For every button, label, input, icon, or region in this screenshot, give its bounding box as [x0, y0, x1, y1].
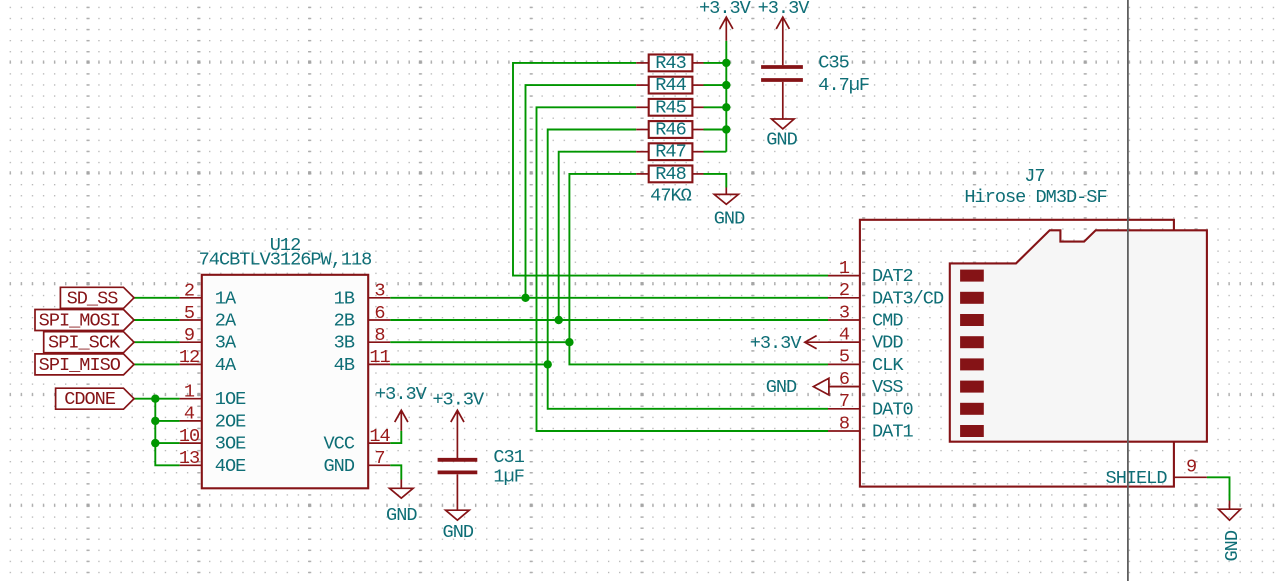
- ground below C35: [766, 119, 797, 150]
- svg-text:2A: 2A: [215, 311, 237, 332]
- wire R47 right to rail bottom: [704, 151, 727, 153]
- wire SD_SS to U12 1A: [134, 297, 180, 299]
- wire R46 right to rail: [704, 129, 727, 131]
- svg-text:R44: R44: [655, 75, 686, 96]
- svg-text:CMD: CMD: [872, 311, 903, 332]
- ground below C31: [443, 510, 474, 543]
- svg-text:10: 10: [179, 426, 200, 447]
- wire to U12 3OE: [155, 442, 179, 444]
- svg-text:GND: GND: [714, 208, 745, 229]
- ground at J7 SHIELD: [1219, 501, 1244, 562]
- svg-text:1µF: 1µF: [493, 466, 523, 487]
- junction DAT0 4B: [544, 360, 552, 368]
- svg-text:C31: C31: [493, 447, 524, 468]
- svg-text:4: 4: [184, 404, 195, 425]
- U12 pin 6 2B: [334, 303, 391, 332]
- net label SPI_MOSI: [35, 310, 134, 332]
- J7 pin 3 CMD: [828, 302, 903, 331]
- junction rail R46: [722, 125, 730, 133]
- junction rail R43: [722, 59, 730, 67]
- wire J7 SHIELD to GND: [1207, 477, 1230, 500]
- svg-text:VCC: VCC: [324, 434, 355, 455]
- svg-text:+3.3V: +3.3V: [750, 333, 803, 354]
- page frame line: [1127, 0, 1129, 581]
- J7 pin 8 DAT1: [828, 413, 913, 442]
- svg-text:6: 6: [374, 303, 384, 324]
- capacitor C35: [761, 52, 869, 119]
- junction CDONE 2OE: [151, 417, 159, 425]
- power +3.3V top left: [699, 0, 752, 41]
- U12 pin 11 4B: [334, 347, 391, 376]
- svg-text:2: 2: [839, 280, 849, 301]
- svg-text:2OE: 2OE: [215, 411, 246, 432]
- junction CLK 3B: [565, 338, 573, 346]
- svg-text:R43: R43: [655, 53, 685, 74]
- svg-text:C35: C35: [818, 52, 848, 73]
- wire R43 right to rail: [704, 62, 727, 64]
- J7 pin 9 SHIELD: [1106, 457, 1207, 489]
- wire net DAT0: R46 left down to J7 pin7: [548, 130, 828, 409]
- U12 pin 2 1A: [180, 281, 237, 310]
- junction CDONE 1OE: [151, 395, 159, 403]
- U12 pin 10 3OE: [179, 426, 246, 455]
- svg-text:VDD: VDD: [872, 333, 903, 354]
- resistor R48: [636, 164, 703, 185]
- svg-text:3A: 3A: [215, 333, 237, 354]
- svg-text:1: 1: [184, 382, 195, 403]
- power +3.3V at J7 VDD: [750, 333, 860, 354]
- IC U12 74CBTLV3126PW body: [199, 235, 372, 488]
- U12 pin 7 GND: [324, 448, 391, 477]
- svg-text:74CBTLV3126PW,118: 74CBTLV3126PW,118: [199, 249, 372, 270]
- svg-text:9: 9: [184, 325, 194, 346]
- svg-text:GND: GND: [443, 522, 474, 543]
- svg-text:SPI_MISO: SPI_MISO: [39, 355, 121, 376]
- svg-text:GND: GND: [386, 505, 417, 526]
- svg-text:4A: 4A: [215, 355, 237, 376]
- wire R44 right to rail: [704, 84, 727, 86]
- junction rail R45: [722, 103, 730, 111]
- junction CDONE 3OE: [151, 439, 159, 447]
- svg-text:2B: 2B: [334, 311, 355, 332]
- wire to U12 2OE: [155, 420, 179, 422]
- power +3.3V top right (C35): [758, 0, 811, 65]
- svg-text:4.7µF: 4.7µF: [818, 75, 869, 96]
- wire net CMD: U12 2B to J7 pin3: [390, 319, 828, 321]
- svg-text:CDONE: CDONE: [64, 389, 116, 410]
- wire net DAT2: R43 left down to J7 pin1: [513, 63, 828, 276]
- svg-text:SPI_SCK: SPI_SCK: [48, 333, 121, 354]
- svg-text:SD_SS: SD_SS: [67, 288, 119, 309]
- J7 pin 4 VDD: [828, 325, 903, 354]
- U12 pin 4 2OE: [180, 404, 247, 433]
- wire R48 right to GND: [704, 174, 727, 188]
- svg-text:J7: J7: [1024, 166, 1044, 187]
- svg-text:CLK: CLK: [872, 355, 904, 376]
- resistor R44: [636, 75, 703, 96]
- svg-text:7: 7: [839, 391, 849, 412]
- wire U12 3B to CLK jog: [390, 341, 569, 343]
- svg-text:47KΩ: 47KΩ: [650, 186, 691, 207]
- wire U12 VCC to +3.3V: [390, 431, 401, 443]
- J7 pin 1 DAT2: [828, 258, 913, 287]
- svg-text:GND: GND: [766, 377, 797, 398]
- svg-text:3OE: 3OE: [215, 434, 246, 455]
- ground below R48: [714, 188, 745, 230]
- svg-text:5: 5: [184, 303, 194, 324]
- net label SPI_MISO: [35, 354, 134, 376]
- U12 pin 14 VCC: [324, 426, 391, 455]
- svg-text:+3.3V: +3.3V: [432, 389, 485, 410]
- U12 pin 8 3B: [334, 325, 391, 354]
- svg-text:VSS: VSS: [872, 377, 903, 398]
- svg-text:SPI_MOSI: SPI_MOSI: [39, 311, 120, 332]
- J7 pin 6 VSS: [828, 369, 903, 398]
- svg-text:+3.3V: +3.3V: [375, 384, 428, 405]
- wire +3.3V rail vertical to R43-R47: [725, 41, 727, 152]
- U12 pin 1 1OE: [180, 382, 247, 411]
- svg-text:3: 3: [374, 281, 384, 302]
- svg-text:2: 2: [184, 281, 194, 302]
- resistor R45: [636, 97, 703, 118]
- svg-text:GND: GND: [1222, 530, 1243, 561]
- ground at J7 VSS: [766, 377, 860, 398]
- resistor R46: [636, 120, 703, 141]
- svg-text:+3.3V: +3.3V: [699, 0, 752, 19]
- wire net DAT1: R45 left down to J7 pin8: [537, 107, 829, 431]
- svg-text:5: 5: [839, 347, 849, 368]
- J7 pin 5 CLK: [828, 347, 904, 376]
- wire net CLK: R48 left down to J7 pin5: [569, 174, 828, 365]
- svg-text:3B: 3B: [334, 333, 355, 354]
- net label SD_SS: [60, 287, 134, 309]
- svg-text:R48: R48: [655, 164, 685, 185]
- svg-text:Hirose DM3D-SF: Hirose DM3D-SF: [964, 187, 1106, 208]
- net label CDONE: [56, 388, 134, 410]
- wire SPI_SCK to U12 3A: [134, 341, 180, 343]
- wire R47 left down to CMD row: [559, 152, 637, 320]
- svg-text:DAT0: DAT0: [872, 399, 913, 420]
- U12 pin 12 4A: [179, 347, 237, 376]
- net label SPI_SCK: [44, 332, 134, 354]
- junction rail R44: [722, 81, 730, 89]
- J7 pin 7 DAT0: [828, 391, 913, 420]
- svg-text:1OE: 1OE: [215, 389, 246, 410]
- svg-text:+3.3V: +3.3V: [758, 0, 811, 19]
- U12 pin 3 1B: [334, 281, 391, 310]
- junction CMD R47: [555, 316, 563, 324]
- ground at U12 pin7: [386, 480, 417, 527]
- svg-text:R47: R47: [655, 142, 685, 163]
- wire CDONE vertical to OE pins: [155, 399, 179, 466]
- svg-text:14: 14: [369, 426, 390, 447]
- power +3.3V at U12 VCC: [375, 384, 428, 431]
- svg-text:R45: R45: [655, 97, 685, 118]
- wire SPI_MISO to U12 4A: [134, 363, 180, 365]
- wire R45 right to rail: [704, 106, 727, 108]
- svg-text:9: 9: [1186, 457, 1196, 478]
- svg-text:DAT3/CD: DAT3/CD: [872, 288, 944, 309]
- svg-text:11: 11: [369, 347, 390, 368]
- svg-text:1: 1: [839, 258, 850, 279]
- svg-text:GND: GND: [324, 456, 355, 477]
- svg-text:4B: 4B: [334, 355, 355, 376]
- svg-text:1A: 1A: [215, 288, 237, 309]
- resistor R43: [636, 53, 703, 74]
- svg-text:R46: R46: [655, 120, 685, 141]
- wire net DAT3/CD: U12 1B to J7 pin2: [390, 297, 828, 299]
- svg-text:8: 8: [839, 413, 849, 434]
- U12 pin 13 4OE: [179, 448, 246, 477]
- svg-text:DAT1: DAT1: [872, 422, 913, 443]
- power +3.3V at C31: [432, 389, 485, 458]
- svg-text:1B: 1B: [334, 288, 355, 309]
- J7 micro SD card outline: [950, 230, 1207, 441]
- svg-text:8: 8: [374, 325, 384, 346]
- wire R44 left down to DAT3/CD row: [526, 85, 637, 298]
- svg-text:SHIELD: SHIELD: [1106, 468, 1168, 489]
- J7 pin 2 DAT3/CD: [828, 280, 944, 309]
- wire U12 4B to DAT0 jog: [390, 363, 548, 365]
- U12 pin 5 2A: [180, 303, 237, 332]
- svg-text:GND: GND: [766, 129, 797, 150]
- junction DAT3/CD R44: [521, 294, 529, 302]
- J7 card contact pads: [960, 270, 984, 437]
- wire SPI_MOSI to U12 2A: [134, 319, 180, 321]
- svg-text:13: 13: [179, 448, 199, 469]
- U12 pin 9 3A: [180, 325, 237, 354]
- svg-text:DAT2: DAT2: [872, 266, 913, 287]
- svg-text:4OE: 4OE: [215, 456, 246, 477]
- connector J7 Hirose DM3D-SF outer box: [860, 166, 1174, 486]
- resistor R47: [636, 142, 703, 163]
- wire U12 GND pin to GND: [390, 465, 401, 479]
- svg-text:12: 12: [179, 347, 199, 368]
- capacitor C31: [438, 447, 525, 510]
- svg-text:3: 3: [839, 302, 849, 323]
- wire CDONE to U12 1OE: [134, 398, 180, 400]
- svg-text:7: 7: [374, 448, 384, 469]
